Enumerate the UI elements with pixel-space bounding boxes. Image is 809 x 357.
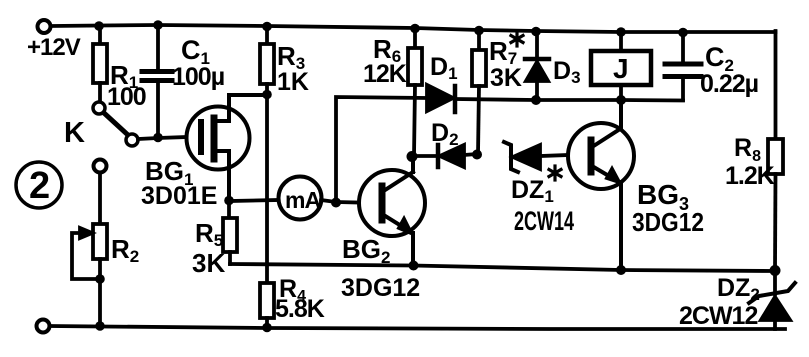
figure number 2 [16,162,62,208]
label DZ2 2CW12 [679,274,760,330]
node J top [616,27,626,37]
diode D2 [412,145,477,167]
label +12V [27,34,81,61]
resistor R5 [223,201,237,264]
node C2 top [678,28,688,38]
svg-text:1.2K: 1.2K [725,162,775,190]
wire switch to gate [138,137,187,139]
svg-text:1K: 1K [277,68,309,96]
transistor BG3 [568,100,634,270]
label 2 [29,165,50,207]
svg-text:3D01E: 3D01E [141,182,217,210]
wire bottom ground rail [50,326,785,329]
svg-text:5.8K: 5.8K [275,295,325,323]
wire right column (rail to R8) [774,31,778,139]
label mA [285,187,320,213]
node R7 bottom [472,150,482,160]
resistor R1 [93,27,107,101]
svg-text:K: K [64,117,85,149]
label BG3 3DG12 [632,179,704,237]
terminal bottom left [37,320,50,333]
node C1 bottom [153,133,163,143]
label D1 [430,53,458,83]
capacitor C1 [142,25,172,136]
label R5 3K [192,218,225,278]
svg-text:3DG12: 3DG12 [341,274,420,302]
node R6/BG2 collector/D2 [407,151,418,162]
label K [64,117,85,149]
label R2 [111,234,139,266]
label R8 1.2K [725,134,775,190]
svg-text:3K: 3K [490,64,522,92]
node meter/base/D1 branch [331,198,341,208]
svg-text:+12V: +12V [27,34,81,61]
node R4 bottom [262,323,272,333]
svg-text:J: J [613,53,629,84]
wire BG1 source to meter [229,200,279,201]
node R1 top [94,21,104,31]
label C2 0.22u [700,42,758,98]
node BG1 source [224,196,234,206]
wire meter to BG2 base [321,200,379,203]
label D2 [431,119,459,149]
label R1 100 [107,60,146,111]
diode D3 [525,32,549,99]
label BG2 3DG12 [341,234,420,302]
node R2 wiper [95,274,105,284]
svg-text:2CW14: 2CW14 [514,206,574,236]
label R6 12K [363,34,407,88]
label R3 1K [277,41,309,96]
label R4 5.8K [275,275,325,323]
node R6 top [410,24,420,34]
relay J [591,32,651,100]
zener DZ2 [749,271,795,329]
svg-text:0.22µ: 0.22µ [700,70,758,98]
transistor BG2 [359,157,425,266]
svg-text:3DG12: 3DG12 [632,207,704,237]
capacitor C2 [665,32,701,100]
svg-text:mA: mA [285,187,320,213]
diode D1 [427,85,534,112]
svg-text:100: 100 [107,83,146,111]
node R8/DZ2/emitter rail [770,265,781,276]
node BG1 drain / R3 bottom [262,90,272,100]
label D3 [553,57,581,87]
label R7* 3K [511,32,523,46]
wire base node up to D1 [336,97,427,202]
svg-text:12K: 12K [363,60,407,88]
node BG3 emitter [616,265,626,275]
label J [613,53,629,84]
wire top supply rail [52,25,776,32]
node BG2 emitter [409,261,419,271]
terminal +12V input [38,20,51,33]
node D1/D3 [531,95,541,105]
wire D3 node to C2 bottom [536,98,683,102]
node D3 top [531,27,541,37]
zener DZ1 [504,142,568,172]
meter mA [279,177,322,220]
node C1 top [153,20,163,30]
node R2 bottom [95,321,105,331]
switch K [93,102,138,146]
wire emitter rail [230,264,775,271]
potentiometer R2 [72,160,107,327]
svg-text:2CW12: 2CW12 [679,302,757,330]
resistor R3 [260,27,274,283]
node R3 top [262,22,272,32]
node BG3 collector [616,95,626,105]
label DZ1* 2CW14 [549,166,561,180]
resistor R7 [472,30,486,154]
transistor BG1 (FET) [187,95,268,200]
svg-text:100µ: 100µ [172,63,224,91]
svg-text:3K: 3K [192,248,225,278]
node R7 top [474,26,484,36]
svg-text:2: 2 [29,165,50,207]
resistor R8 [768,139,783,270]
resistor R4 [260,283,274,328]
label BG1 3D01E [141,156,217,210]
label C1 100u [172,35,224,91]
resistor R6 [408,28,422,156]
